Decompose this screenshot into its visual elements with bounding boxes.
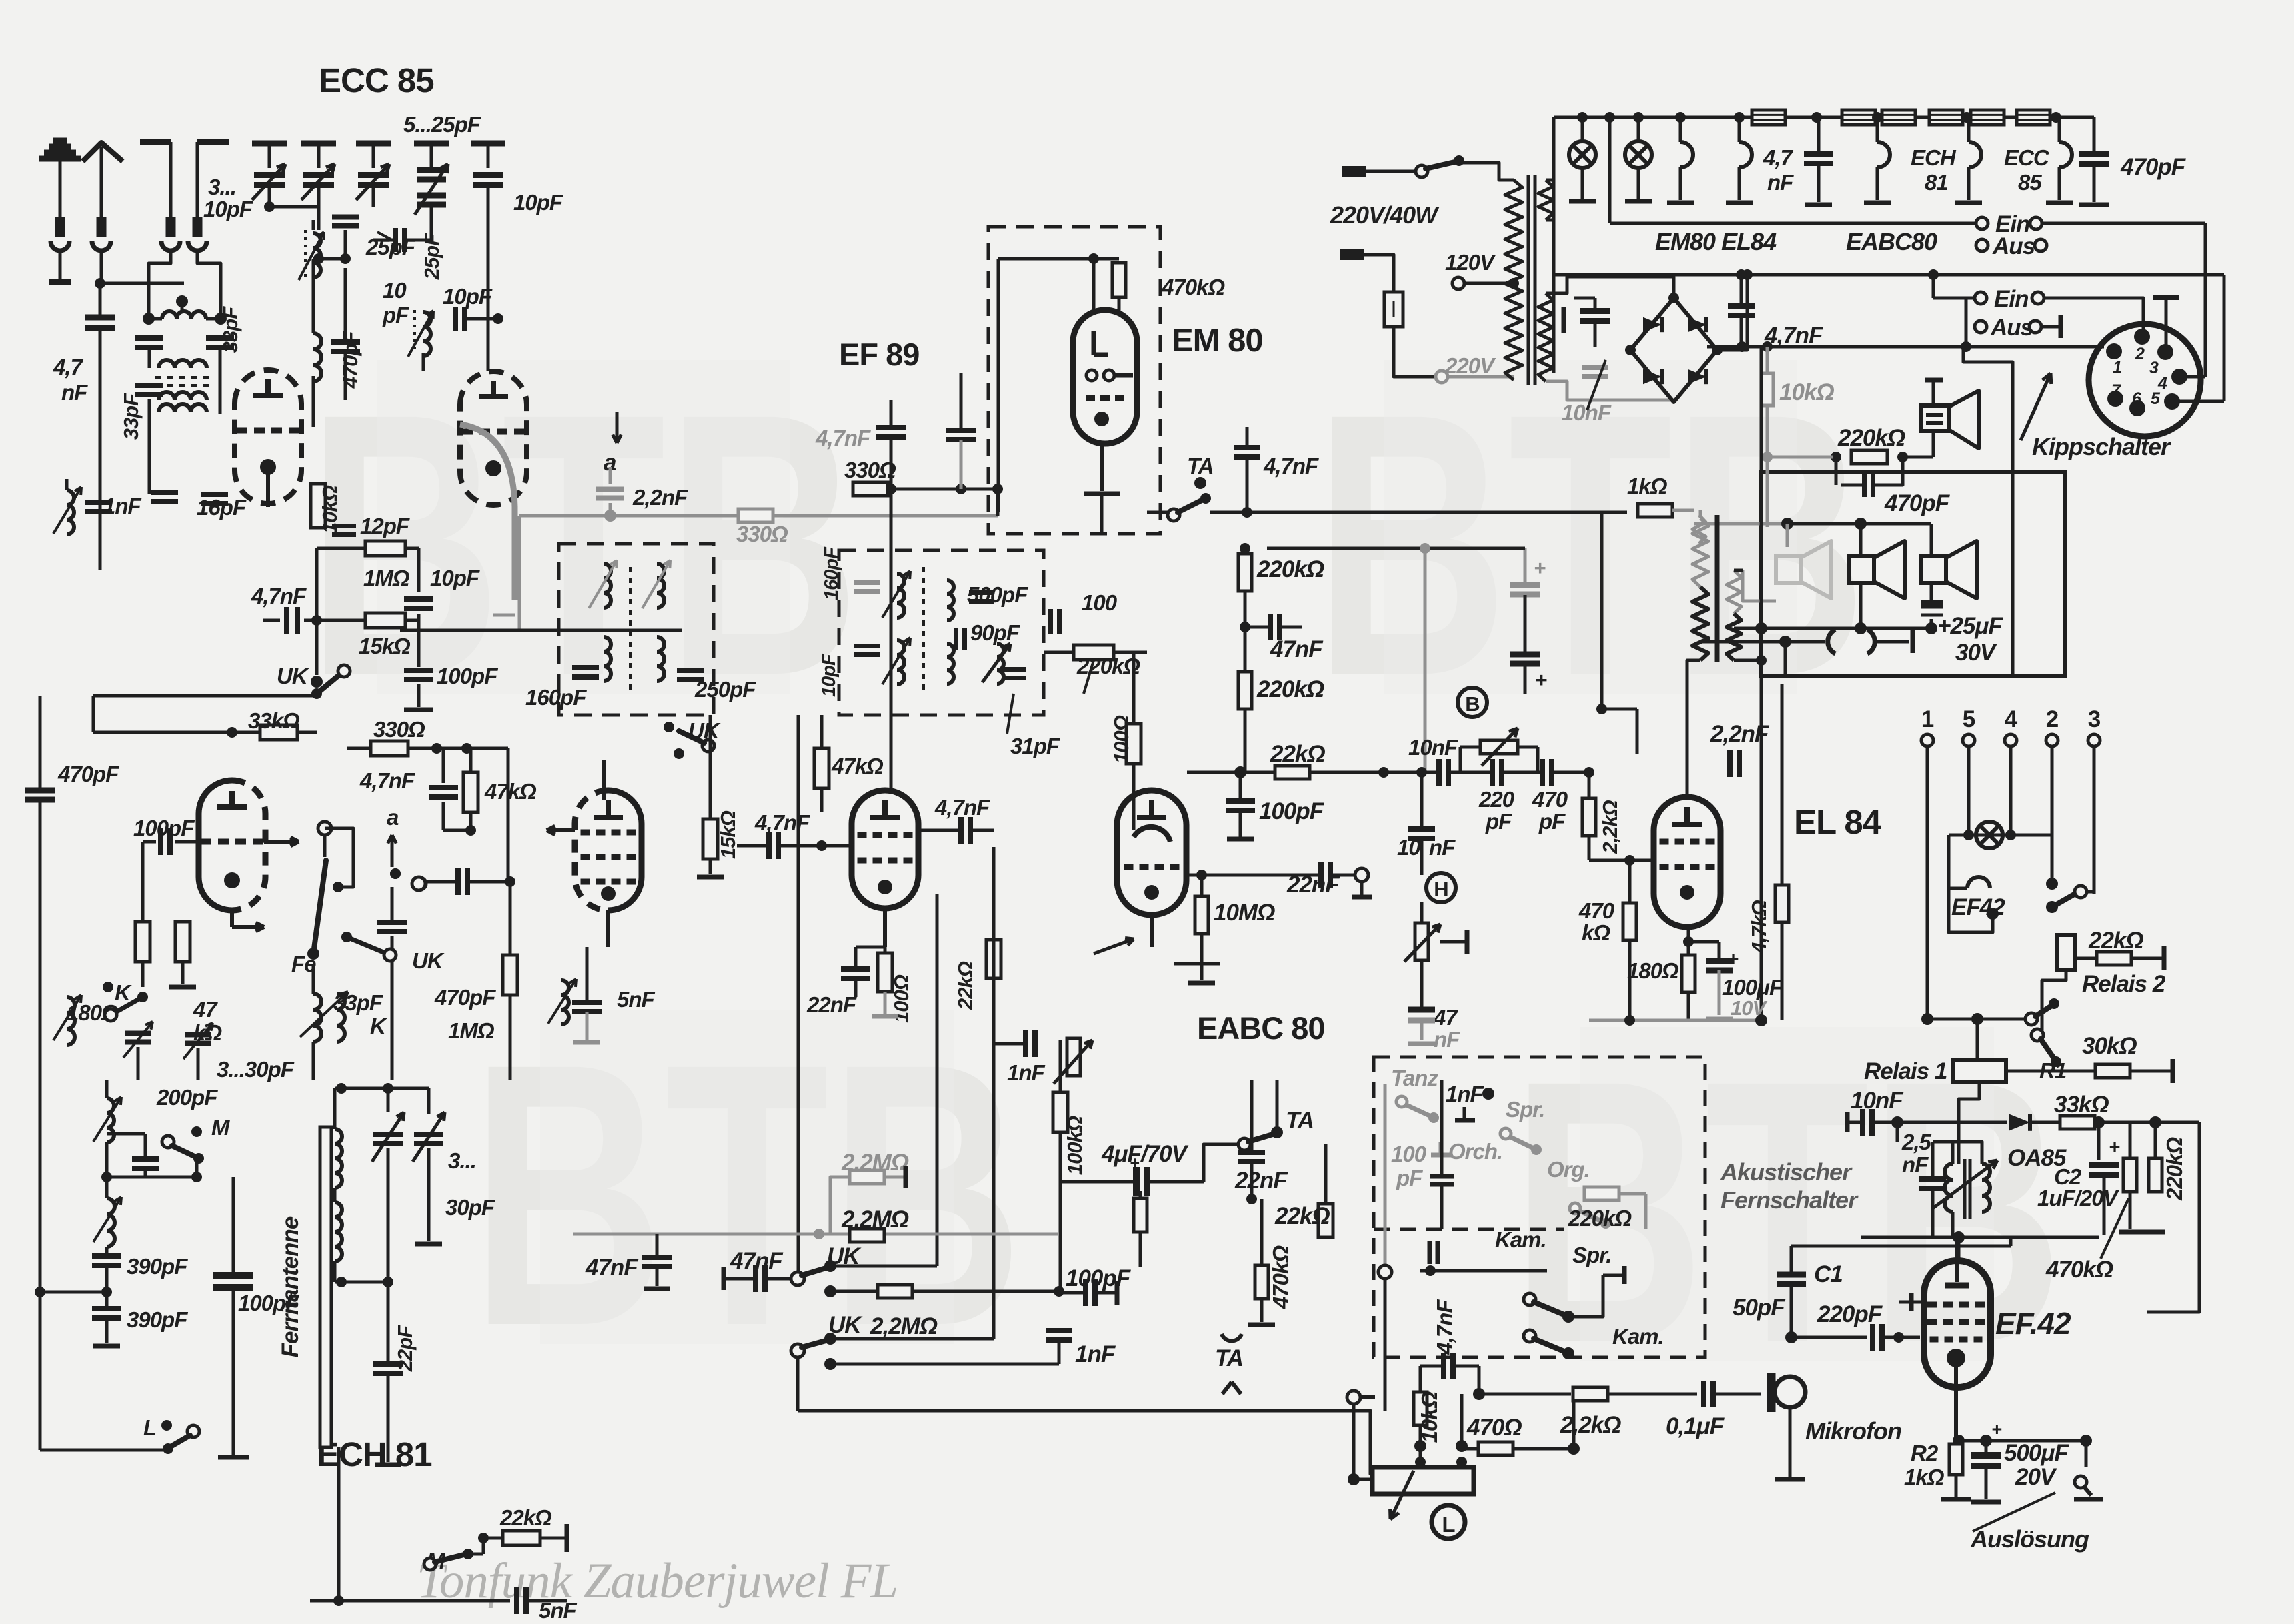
- svg-text:2,5: 2,5: [1901, 1130, 1932, 1154]
- svg-text:2,2kΩ: 2,2kΩ: [1598, 800, 1622, 854]
- svg-text:EABC80: EABC80: [1846, 228, 1937, 255]
- svg-text:1nF: 1nF: [1075, 1341, 1116, 1367]
- svg-text:10MΩ: 10MΩ: [1214, 900, 1275, 926]
- svg-text:pF: pF: [1485, 809, 1512, 834]
- svg-text:470Ω: 470Ω: [1466, 1415, 1522, 1441]
- svg-text:100pF: 100pF: [1066, 1265, 1132, 1291]
- svg-text:1nF: 1nF: [1007, 1060, 1046, 1085]
- svg-text:220pF: 220pF: [1817, 1301, 1883, 1327]
- svg-text:12pF: 12pF: [360, 514, 410, 538]
- svg-text:Akustischer: Akustischer: [1720, 1158, 1853, 1186]
- svg-text:160pF: 160pF: [525, 685, 587, 710]
- svg-text:Relais 1: Relais 1: [1864, 1058, 1947, 1084]
- svg-text:220kΩ: 220kΩ: [1256, 556, 1324, 582]
- svg-text:470pF: 470pF: [57, 762, 119, 786]
- svg-text:22nF: 22nF: [1234, 1168, 1288, 1194]
- svg-text:H: H: [1434, 878, 1448, 901]
- svg-text:22kΩ: 22kΩ: [954, 961, 977, 1010]
- svg-text:220: 220: [1478, 787, 1515, 812]
- svg-text:Relais 2: Relais 2: [2082, 971, 2166, 997]
- svg-text:30kΩ: 30kΩ: [2082, 1033, 2137, 1059]
- svg-text:1nF: 1nF: [103, 494, 142, 518]
- svg-text:100: 100: [1391, 1142, 1427, 1166]
- svg-text:4,7nF: 4,7nF: [1263, 454, 1319, 478]
- svg-text:B: B: [1465, 692, 1479, 716]
- svg-text:470: 470: [1532, 787, 1568, 812]
- svg-text:Org.: Org.: [1547, 1157, 1590, 1182]
- svg-text:50pF: 50pF: [1733, 1295, 1786, 1321]
- svg-text:200pF: 200pF: [156, 1085, 218, 1110]
- svg-text:330Ω: 330Ω: [736, 522, 788, 546]
- svg-text:180Ω: 180Ω: [1627, 958, 1679, 983]
- svg-text:33kΩ: 33kΩ: [2054, 1092, 2109, 1118]
- svg-text:120V: 120V: [1445, 250, 1496, 275]
- svg-text:1: 1: [1921, 706, 1934, 732]
- svg-text:Kam.: Kam.: [1495, 1227, 1546, 1252]
- svg-text:TA: TA: [1286, 1108, 1314, 1134]
- svg-text:4,7nF: 4,7nF: [754, 810, 810, 835]
- svg-text:pF: pF: [1396, 1166, 1423, 1190]
- svg-text:EF.42: EF.42: [1995, 1306, 2071, 1341]
- svg-text:10pF: 10pF: [513, 190, 563, 215]
- svg-text:470: 470: [1578, 898, 1615, 923]
- svg-text:nF: nF: [1434, 1027, 1460, 1052]
- svg-text:22nF: 22nF: [806, 992, 857, 1017]
- svg-text:100pF: 100pF: [437, 664, 498, 688]
- svg-text:470kΩ: 470kΩ: [1161, 275, 1225, 299]
- svg-text:EL 84: EL 84: [1794, 803, 1882, 841]
- svg-text:6: 6: [2132, 389, 2142, 408]
- svg-text:390pF: 390pF: [127, 1307, 188, 1332]
- svg-text:kΩ: kΩ: [1582, 920, 1610, 945]
- svg-text:1kΩ: 1kΩ: [1627, 474, 1668, 498]
- svg-text:Kippschalter: Kippschalter: [2032, 433, 2171, 460]
- svg-text:Mikrofon: Mikrofon: [1805, 1417, 1901, 1445]
- svg-text:TA: TA: [1187, 454, 1214, 478]
- svg-text:nF: nF: [1767, 170, 1794, 195]
- svg-text:4,7: 4,7: [53, 355, 84, 379]
- svg-text:85: 85: [2018, 170, 2042, 195]
- svg-text:30V: 30V: [1955, 640, 1997, 666]
- svg-text:10pF: 10pF: [443, 284, 493, 309]
- svg-text:100Ω: 100Ω: [1110, 715, 1133, 764]
- svg-text:pF: pF: [382, 303, 409, 327]
- svg-text:33pF: 33pF: [219, 306, 242, 353]
- svg-text:470pF: 470pF: [1884, 490, 1951, 516]
- svg-text:M: M: [211, 1115, 231, 1140]
- svg-text:R1: R1: [2039, 1058, 2066, 1083]
- svg-text:470pF: 470pF: [434, 985, 496, 1010]
- svg-text:2,2nF: 2,2nF: [1710, 721, 1770, 747]
- svg-text:Ein: Ein: [1994, 286, 2028, 312]
- svg-text:15kΩ: 15kΩ: [359, 634, 411, 658]
- svg-text:220kΩ: 220kΩ: [1076, 654, 1140, 678]
- svg-text:4: 4: [2005, 706, 2018, 732]
- svg-text:1nF: 1nF: [1446, 1082, 1484, 1106]
- svg-text:390pF: 390pF: [127, 1254, 188, 1279]
- svg-text:4,7nF: 4,7nF: [815, 426, 871, 450]
- svg-text:5: 5: [2151, 389, 2161, 408]
- svg-text:3...: 3...: [448, 1148, 476, 1173]
- svg-text:47kΩ: 47kΩ: [484, 779, 537, 804]
- svg-text:nF: nF: [1902, 1152, 1929, 1177]
- svg-text:10: 10: [383, 278, 407, 303]
- svg-text:2: 2: [2135, 345, 2145, 363]
- svg-text:470kΩ: 470kΩ: [1268, 1245, 1293, 1309]
- svg-text:R2: R2: [1911, 1441, 1939, 1465]
- svg-text:Kam.: Kam.: [1612, 1324, 1664, 1349]
- svg-text:330Ω: 330Ω: [373, 717, 425, 742]
- svg-text:160pF: 160pF: [821, 546, 842, 600]
- svg-text:220kΩ: 220kΩ: [2162, 1137, 2187, 1201]
- svg-text:90pF: 90pF: [970, 620, 1020, 645]
- svg-text:UK: UK: [412, 948, 445, 973]
- svg-text:22kΩ: 22kΩ: [1274, 1203, 1330, 1229]
- svg-text:10nF: 10nF: [1408, 735, 1458, 760]
- svg-text:EF 89: EF 89: [839, 337, 919, 372]
- svg-text:4,7nF: 4,7nF: [359, 768, 415, 793]
- svg-text:4,7nF: 4,7nF: [1432, 1299, 1457, 1355]
- svg-text:10pF: 10pF: [818, 653, 840, 697]
- svg-text:30pF: 30pF: [445, 1195, 495, 1220]
- svg-text:+: +: [1534, 556, 1546, 580]
- svg-text:33pF: 33pF: [119, 393, 143, 440]
- svg-text:22kΩ: 22kΩ: [1270, 741, 1325, 767]
- svg-text:250pF: 250pF: [694, 677, 756, 702]
- svg-text:4,7kΩ: 4,7kΩ: [1747, 900, 1771, 954]
- svg-text:15kΩ: 15kΩ: [716, 810, 740, 859]
- svg-text:220V: 220V: [1444, 353, 1496, 378]
- svg-text:ECC 85: ECC 85: [319, 61, 434, 99]
- svg-text:220V/40W: 220V/40W: [1330, 201, 1440, 229]
- svg-text:nF: nF: [61, 380, 88, 405]
- svg-text:10kΩ: 10kΩ: [1779, 379, 1834, 405]
- svg-text:L: L: [143, 1415, 156, 1440]
- svg-text:1MΩ: 1MΩ: [363, 566, 410, 590]
- svg-text:ECH: ECH: [1911, 145, 1957, 170]
- svg-text:a: a: [387, 805, 399, 830]
- svg-text:47: 47: [1433, 1005, 1458, 1030]
- svg-text:Spr.: Spr.: [1572, 1243, 1611, 1267]
- svg-text:Orch.: Orch.: [1448, 1139, 1502, 1164]
- svg-text:+: +: [1727, 949, 1739, 970]
- svg-text:0,1μF: 0,1μF: [1666, 1413, 1725, 1439]
- svg-text:4μF/70V: 4μF/70V: [1101, 1141, 1189, 1167]
- svg-text:330Ω: 330Ω: [844, 458, 896, 482]
- svg-text:100: 100: [1082, 590, 1118, 615]
- svg-text:TA: TA: [1215, 1345, 1243, 1371]
- svg-text:470kΩ: 470kΩ: [2045, 1257, 2113, 1283]
- svg-text:1MΩ: 1MΩ: [448, 1018, 495, 1043]
- svg-text:L: L: [1442, 1512, 1455, 1537]
- svg-text:22kΩ: 22kΩ: [499, 1505, 552, 1530]
- svg-text:100pF: 100pF: [133, 816, 195, 840]
- svg-text:2,2kΩ: 2,2kΩ: [1560, 1412, 1621, 1438]
- svg-text:47nF: 47nF: [585, 1255, 639, 1281]
- svg-text:220kΩ: 220kΩ: [1568, 1206, 1632, 1231]
- svg-text:pF: pF: [1538, 809, 1566, 834]
- svg-text:+: +: [1991, 1419, 2002, 1439]
- svg-text:1uF/20V: 1uF/20V: [2037, 1186, 2120, 1210]
- svg-text:+: +: [1535, 668, 1547, 692]
- svg-text:16pF: 16pF: [197, 495, 247, 520]
- svg-text:2,2nF: 2,2nF: [632, 485, 688, 510]
- svg-text:C1: C1: [1814, 1261, 1843, 1287]
- svg-text:7: 7: [2111, 381, 2121, 400]
- svg-text:4,7nF: 4,7nF: [934, 795, 990, 820]
- svg-text:5: 5: [1963, 706, 1975, 732]
- svg-text:Fernschalter: Fernschalter: [1720, 1186, 1859, 1214]
- svg-text:UK: UK: [277, 664, 309, 688]
- svg-text:4,7nF: 4,7nF: [251, 584, 307, 608]
- svg-text:Spr.: Spr.: [1506, 1097, 1544, 1122]
- svg-text:10nF: 10nF: [1562, 400, 1612, 425]
- svg-text:K: K: [370, 1014, 387, 1038]
- svg-text:10pF: 10pF: [203, 197, 253, 221]
- svg-text:100kΩ: 100kΩ: [1063, 1116, 1086, 1175]
- svg-text:Ferritantenne: Ferritantenne: [277, 1216, 303, 1357]
- svg-text:5nF: 5nF: [617, 987, 656, 1012]
- svg-text:81: 81: [1925, 170, 1948, 195]
- svg-text:4,7: 4,7: [1763, 145, 1794, 170]
- svg-text:470pF: 470pF: [339, 331, 362, 389]
- svg-text:Tanz: Tanz: [1391, 1066, 1438, 1090]
- svg-text:10nF: 10nF: [1851, 1088, 1904, 1114]
- svg-text:4,7nF: 4,7nF: [1764, 323, 1824, 349]
- svg-text:5...25pF: 5...25pF: [403, 112, 481, 137]
- svg-text:20V: 20V: [2015, 1464, 2057, 1490]
- svg-text:10pF: 10pF: [430, 566, 480, 590]
- svg-text:K: K: [115, 980, 132, 1005]
- svg-text:ECH 81: ECH 81: [317, 1435, 432, 1473]
- svg-text:500μF: 500μF: [2004, 1440, 2070, 1466]
- svg-text:3...30pF: 3...30pF: [217, 1057, 295, 1082]
- svg-text:EM 80: EM 80: [1172, 323, 1263, 359]
- svg-text:47: 47: [193, 997, 218, 1022]
- svg-text:220kΩ: 220kΩ: [1256, 676, 1324, 702]
- svg-text:+: +: [2109, 1137, 2120, 1158]
- svg-text:1kΩ: 1kΩ: [1904, 1465, 1945, 1489]
- svg-text:31pF: 31pF: [1010, 734, 1060, 758]
- svg-text:EM80 EL84: EM80 EL84: [1655, 228, 1777, 255]
- svg-text:47nF: 47nF: [1270, 636, 1324, 662]
- svg-text:ECC: ECC: [2004, 145, 2050, 170]
- svg-text:1: 1: [2113, 358, 2121, 377]
- svg-text:100pF: 100pF: [1259, 798, 1325, 824]
- svg-text:Aus: Aus: [1990, 315, 2033, 341]
- svg-text:2,2MΩ: 2,2MΩ: [870, 1313, 938, 1339]
- svg-text:3: 3: [2149, 359, 2159, 377]
- svg-text:3: 3: [2088, 706, 2101, 732]
- svg-text:Aus: Aus: [1992, 233, 2035, 259]
- svg-text:+25μF: +25μF: [1937, 613, 2003, 639]
- svg-text:47kΩ: 47kΩ: [831, 754, 884, 778]
- svg-text:220kΩ: 220kΩ: [1837, 425, 1905, 451]
- svg-text:Auslösung: Auslösung: [1970, 1525, 2089, 1553]
- svg-text:3...: 3...: [208, 175, 236, 199]
- svg-text:EABC 80: EABC 80: [1197, 1010, 1325, 1046]
- svg-text:33kΩ: 33kΩ: [248, 708, 300, 733]
- svg-text:2: 2: [2046, 706, 2059, 732]
- svg-text:500pF: 500pF: [967, 582, 1028, 607]
- svg-text:+: +: [1130, 1154, 1140, 1172]
- svg-text:470pF: 470pF: [2120, 154, 2187, 180]
- svg-text:22kΩ: 22kΩ: [2088, 928, 2143, 954]
